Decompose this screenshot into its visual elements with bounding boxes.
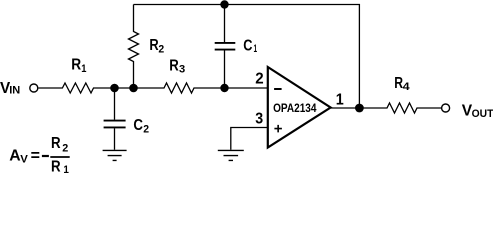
svg-text:1: 1 <box>81 63 86 75</box>
svg-text:2: 2 <box>255 70 263 87</box>
svg-text:R: R <box>51 158 61 173</box>
svg-text:4: 4 <box>403 81 411 93</box>
svg-text:2: 2 <box>158 43 164 55</box>
svg-text:OPA2134: OPA2134 <box>273 103 317 115</box>
svg-text:IN: IN <box>9 85 20 97</box>
svg-text:3: 3 <box>179 64 185 76</box>
svg-text:C: C <box>243 37 253 54</box>
svg-text:R: R <box>169 57 179 74</box>
svg-text:3: 3 <box>255 110 263 127</box>
svg-text:C: C <box>133 117 143 134</box>
svg-text:A: A <box>9 147 21 164</box>
svg-text:R: R <box>51 135 61 152</box>
svg-text:1: 1 <box>336 92 344 109</box>
svg-text:1: 1 <box>254 43 258 55</box>
svg-text:R: R <box>71 56 81 73</box>
svg-text:1: 1 <box>63 164 69 173</box>
svg-text:=: = <box>31 147 40 164</box>
svg-text:2: 2 <box>62 142 68 154</box>
svg-text:OUT: OUT <box>472 108 493 120</box>
svg-text:V: V <box>20 154 28 166</box>
svg-text:2: 2 <box>143 123 149 135</box>
